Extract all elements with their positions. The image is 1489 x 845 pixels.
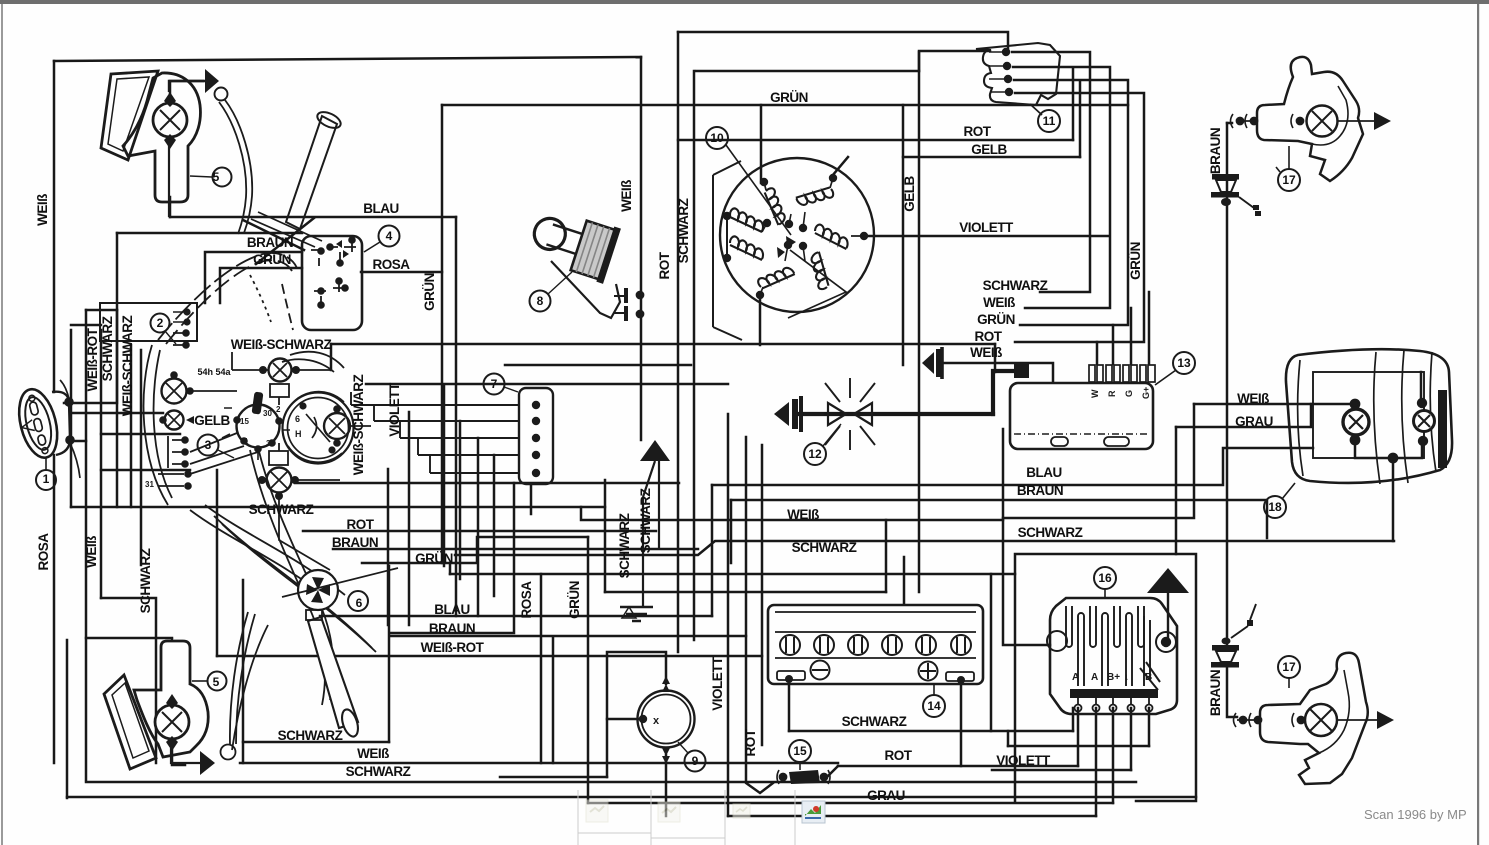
wire y777 stub — [500, 776, 607, 779]
wire top points box — [678, 32, 1008, 50]
horn connector bottom — [1211, 604, 1256, 668]
regulator 16 — [1047, 598, 1177, 714]
node label 17 front — [1276, 146, 1300, 191]
ignition coil 8 — [525, 203, 643, 321]
coil upper-right — [795, 176, 835, 216]
wire schwarz vertical x694 — [693, 71, 696, 640]
stator frame — [713, 161, 742, 340]
svg-text:B+: B+ — [1107, 672, 1120, 683]
switch 2 box — [100, 303, 197, 341]
wire WEISS bottom line — [240, 762, 838, 765]
wire lever box left — [242, 580, 245, 763]
node label 7 — [484, 374, 519, 395]
wire WEISSROT bucket y656 — [217, 655, 762, 658]
svg-text:SCHWARZ: SCHWARZ — [346, 764, 411, 779]
svg-text:VIOLETT: VIOLETT — [710, 656, 725, 711]
svg-text:ROT: ROT — [347, 517, 375, 532]
wire x1078 regulator A — [1077, 708, 1080, 766]
wire VIOLETT mid — [864, 235, 1109, 238]
svg-text:SCHWARZ: SCHWARZ — [1018, 525, 1083, 540]
svg-text:BRAUN: BRAUN — [247, 235, 293, 250]
wire points out 4 — [1015, 93, 1144, 342]
svg-text:2: 2 — [157, 316, 164, 330]
svg-text:SCHWARZ: SCHWARZ — [792, 540, 857, 555]
wire inner box a — [205, 252, 302, 303]
alternator 10 — [713, 158, 874, 340]
wire y365 — [505, 364, 691, 367]
svg-text:ROT: ROT — [657, 251, 672, 279]
wire thick fuse line — [799, 412, 993, 416]
svg-text:H: H — [295, 429, 302, 439]
svg-text:x: x — [653, 715, 660, 727]
broken image placeholder 1 — [586, 800, 608, 822]
svg-text:9: 9 — [692, 754, 699, 768]
svg-text:GRÜN: GRÜN — [977, 312, 1015, 327]
wire SCHWARZ bottom long — [86, 781, 1136, 784]
gelb lamp — [160, 411, 194, 430]
svg-text:B: B — [1145, 672, 1152, 683]
wire top frame — [54, 57, 641, 61]
svg-text:5: 5 — [213, 675, 220, 689]
wire left vertical x71 — [70, 330, 73, 507]
switch 3 pins — [168, 436, 188, 468]
wire x1176 vertical — [1175, 427, 1178, 554]
node label 9 — [678, 742, 706, 772]
weiss arrow connector — [922, 347, 942, 379]
wire left vertical x67 — [66, 640, 69, 798]
wire x886 — [885, 520, 888, 592]
faint table cell borders — [578, 790, 795, 845]
wire left frame lower — [53, 455, 56, 763]
wire bucket mesh horizontals — [71, 384, 728, 507]
node label 5 front — [190, 168, 232, 187]
wire BRAUN bucket y549 — [333, 548, 698, 551]
wire x712 vertical — [711, 485, 714, 616]
svg-text:BRAUN: BRAUN — [1017, 483, 1063, 498]
svg-text:14: 14 — [927, 699, 941, 713]
battery 14 — [768, 605, 983, 684]
svg-text:SCHWARZ: SCHWARZ — [138, 548, 153, 613]
svg-text:54h 54a: 54h 54a — [197, 367, 231, 377]
node label 14 — [923, 684, 945, 717]
wire bucket box left — [116, 233, 119, 507]
svg-text:WEIß: WEIß — [787, 507, 819, 522]
svg-text:4: 4 — [386, 229, 393, 243]
svg-text:ROT: ROT — [964, 124, 992, 139]
horn connector top — [1211, 174, 1261, 216]
broken image placeholder 3 — [733, 804, 750, 818]
svg-text:SCHWARZ: SCHWARZ — [638, 488, 653, 553]
wire rosa from switch4 — [361, 271, 442, 274]
wire bucket lines left entries — [71, 310, 117, 325]
svg-text:6: 6 — [356, 596, 363, 610]
wire x1096 regulator A2 — [1095, 708, 1098, 816]
wire weiss-schwarz y344 — [331, 343, 995, 346]
wire bucket mesh verticals — [388, 385, 494, 625]
svg-text:GELB: GELB — [971, 142, 1007, 157]
svg-text:GRÜN: GRÜN — [567, 581, 582, 619]
svg-text:GRAU: GRAU — [867, 788, 905, 803]
svg-text:BRAUN: BRAUN — [1208, 670, 1223, 716]
wire alternator bottom tap — [759, 295, 762, 345]
wire braun gruen diag a — [243, 220, 304, 250]
speedo lamp right — [324, 406, 350, 445]
coil upper-left — [755, 186, 795, 226]
svg-text:A: A — [1072, 672, 1079, 683]
svg-text:ROSA: ROSA — [36, 533, 51, 571]
wire braun vertical front blinker — [1226, 123, 1229, 645]
svg-text:SCHWARZ: SCHWARZ — [249, 502, 314, 517]
svg-text:WEIß: WEIß — [35, 194, 50, 226]
brake switch 15 — [777, 770, 830, 784]
coil left double — [730, 208, 763, 232]
clutch lever grip — [221, 610, 361, 760]
connector strip 7 — [351, 388, 553, 484]
svg-text:8: 8 — [537, 294, 544, 308]
wire rear lamp ground drop — [1392, 458, 1395, 541]
node label 3 — [198, 435, 235, 459]
svg-text:15: 15 — [240, 417, 249, 426]
svg-text:WEIß-ROT: WEIß-ROT — [85, 327, 100, 391]
headlight shell outline — [144, 345, 345, 600]
wire pilot lamp riser — [330, 344, 333, 370]
wire rear lamp inner drops — [1355, 372, 1422, 458]
throttle grip lever — [251, 109, 343, 247]
wire front blinker feed — [1227, 122, 1232, 125]
node label 17 rear — [1278, 656, 1300, 688]
svg-text:1: 1 — [43, 472, 50, 486]
rear turn signal 17 — [1234, 653, 1395, 784]
flasher relay 9 — [638, 676, 695, 764]
wire rosa staircase — [450, 484, 541, 763]
svg-text:BRAUN: BRAUN — [332, 535, 378, 550]
wire inner box b — [220, 268, 302, 303]
svg-text:16: 16 — [1098, 571, 1112, 585]
wire blinker5 bottom arrow stub — [172, 748, 185, 765]
wire VIOLETT y816 — [728, 815, 1096, 818]
node label 15 — [789, 740, 811, 770]
wire lower box left — [86, 637, 172, 640]
wire rot feed vertical — [1072, 68, 1075, 140]
broken image placeholder 4 — [802, 801, 825, 823]
svg-text:2: 2 — [276, 405, 281, 414]
svg-text:VIOLETT: VIOLETT — [959, 220, 1014, 235]
turn signal lamp 5 rear — [104, 638, 215, 775]
wire x1149 regulator B2 — [1148, 708, 1151, 746]
svg-text:ROSA: ROSA — [372, 257, 410, 272]
svg-text:SCHWARZ: SCHWARZ — [842, 714, 907, 729]
node label 18 — [1264, 483, 1295, 518]
svg-text:SCHWARZ: SCHWARZ — [278, 728, 343, 743]
wire horn feed top — [64, 310, 117, 403]
svg-text:GRÜN: GRÜN — [422, 273, 437, 311]
svg-text:12: 12 — [808, 447, 822, 461]
svg-text:R: R — [1107, 390, 1117, 397]
tail lamp indicator bottom — [259, 451, 298, 499]
svg-text:WEIß: WEIß — [1237, 391, 1269, 406]
svg-text:ROT: ROT — [885, 748, 913, 763]
svg-text:ROT: ROT — [743, 728, 758, 756]
svg-text:GELB: GELB — [194, 413, 230, 428]
wire x514 vertical — [390, 483, 514, 633]
wire horn2 to blinker — [1227, 667, 1237, 717]
wire bucket internal runs — [186, 352, 371, 570]
node label 4 — [364, 226, 400, 253]
wire BRAUN bucket y636 — [390, 635, 746, 638]
svg-text:10: 10 — [710, 131, 724, 145]
turn signal lamp 5 front — [101, 69, 252, 234]
wire SCHWARZ battery y731 — [789, 730, 1073, 733]
terminal 31 strip — [145, 471, 191, 489]
wire left frame upper (WEISS) — [53, 61, 56, 392]
wire weiss vertical x641 — [640, 57, 643, 440]
brake light switch 6 — [282, 568, 398, 610]
svg-text:VIOLETT: VIOLETT — [996, 753, 1051, 768]
svg-text:BLAU: BLAU — [363, 201, 399, 216]
wire x904 battery — [903, 557, 906, 604]
coil lower-left — [756, 258, 795, 298]
wire bottom frame — [67, 796, 1196, 799]
svg-text:WEIß-SCHWARZ: WEIß-SCHWARZ — [351, 375, 366, 476]
svg-text:G: G — [1124, 390, 1134, 397]
svg-text:WEIß-ROT: WEIß-ROT — [421, 640, 485, 655]
coil right — [814, 224, 848, 249]
wire diode feeds — [1097, 292, 1149, 364]
wire y574 — [450, 573, 1015, 576]
wire GRAU y803 — [588, 802, 1113, 805]
wire x1194 vertical — [1003, 404, 1194, 518]
svg-text:5: 5 — [213, 170, 220, 184]
wire x607 lower — [606, 719, 609, 777]
svg-text:WEIß: WEIß — [84, 536, 99, 568]
wire x731 vertical — [730, 500, 733, 563]
wire x1008 stub — [1007, 731, 1010, 746]
wire BLAU mid right — [712, 448, 1313, 485]
wire riser x995 — [994, 344, 997, 372]
wire WEISS rear lamp — [1194, 403, 1349, 406]
wire BRAUN mid right — [731, 500, 1267, 538]
node label 13 — [1155, 352, 1195, 385]
wire GRUEN staircase — [362, 537, 588, 563]
wire x217 vertical — [216, 470, 219, 656]
wire points weiss feed — [919, 51, 990, 71]
svg-text:SCHWARZ: SCHWARZ — [100, 316, 115, 381]
node label 16 — [1094, 567, 1116, 598]
fuse 12 — [774, 378, 875, 450]
svg-text:GRÜN: GRÜN — [1128, 242, 1143, 280]
tail lamp assembly 18 — [1286, 349, 1452, 484]
svg-text:Scan 1996 by MP: Scan 1996 by MP — [1364, 807, 1467, 822]
diode board 13 — [1010, 365, 1155, 449]
node label 5 rear — [192, 672, 227, 691]
svg-text:GRAU: GRAU — [1235, 414, 1273, 429]
regulator ground triangle — [1147, 568, 1189, 640]
cable curves to lower lever — [214, 447, 376, 750]
wire alternator top taps — [761, 105, 848, 183]
wire y592 — [605, 591, 886, 594]
node label 8 — [530, 272, 573, 312]
switch2 pins lower — [173, 330, 189, 347]
wire SCHWARZ long — [455, 541, 1394, 555]
coil lower-right — [800, 251, 839, 291]
speedometer — [283, 392, 354, 464]
wire BLAU bucket y616 — [320, 615, 712, 618]
wire flasher bottom stub — [665, 755, 668, 816]
svg-text:17: 17 — [1282, 173, 1296, 187]
ignition switch circle — [222, 392, 290, 460]
wire ROT bucket y531 — [303, 530, 656, 533]
pilot lamp top — [260, 359, 299, 398]
wire points out 3 — [1014, 80, 1128, 325]
svg-text:GELB: GELB — [902, 176, 917, 212]
svg-text:BLAU: BLAU — [1026, 465, 1062, 480]
node label 6 — [348, 591, 368, 611]
wire lever box bottom — [243, 741, 389, 744]
svg-text:18: 18 — [1268, 500, 1282, 514]
wire points out 1 — [1012, 52, 1090, 292]
svg-text:BRAUN: BRAUN — [429, 621, 475, 636]
broken image placeholder 2 — [658, 802, 680, 822]
contact breaker 11 — [976, 43, 1060, 115]
svg-text:VIOLETT: VIOLETT — [387, 382, 402, 437]
wire horn feed bottom — [70, 440, 86, 443]
wire WEISS mid y520 — [581, 507, 1003, 520]
wire gelb feed vertical — [1079, 82, 1082, 157]
svg-text:3: 3 — [205, 438, 212, 452]
B+ square terminal — [1014, 363, 1029, 378]
svg-text:A: A — [1091, 672, 1098, 683]
wire x746 vertical rot — [746, 437, 773, 793]
svg-text:ROT: ROT — [975, 329, 1003, 344]
wire ROT top — [678, 139, 1073, 142]
wire regulator box — [1015, 554, 1196, 801]
horn 1 — [13, 380, 80, 478]
wire lever box right — [388, 566, 391, 742]
wire GRUEN top long — [442, 104, 1128, 107]
wire step x101 to x156 — [101, 598, 156, 763]
node label 10 — [706, 127, 791, 235]
ignition light switch 4 — [302, 236, 362, 330]
wire BLAU top — [170, 216, 456, 219]
svg-text:↓: ↓ — [1124, 672, 1129, 683]
wire VIOLETT y770 — [992, 769, 1131, 772]
wire braun gruen diag b — [256, 218, 314, 264]
page chrome — [0, 0, 1489, 4]
node label 12 — [804, 424, 841, 465]
svg-text:GRÜN: GRÜN — [253, 252, 291, 267]
node label texts (numbers) — [43, 114, 1296, 768]
svg-text:SCHWARZ: SCHWARZ — [676, 198, 691, 263]
svg-text:G+: G+ — [1141, 387, 1151, 399]
wire GRAU rear lamp — [1176, 404, 1311, 427]
wire left vertical x101 — [100, 330, 103, 598]
wire x553 vertical — [552, 638, 555, 763]
wire ROT y766 — [838, 765, 1078, 768]
svg-text:WEIß-SCHWARZ: WEIß-SCHWARZ — [120, 316, 135, 417]
svg-text:WEIß-SCHWARZ: WEIß-SCHWARZ — [231, 337, 332, 352]
svg-text:W: W — [1090, 389, 1100, 398]
svg-text:BLAU: BLAU — [434, 602, 470, 617]
svg-text:WEIß: WEIß — [619, 180, 634, 212]
svg-text:ROSA: ROSA — [519, 581, 534, 619]
wire alternator box top — [696, 70, 919, 73]
wire points out 2 — [1013, 67, 1110, 308]
svg-text:6: 6 — [295, 414, 300, 424]
wire gruen vertical x588 — [587, 537, 590, 803]
svg-text:3: 3 — [266, 439, 271, 448]
wire gelb vertical x903 — [902, 105, 905, 365]
wire weiss-rot group verticals — [131, 345, 141, 565]
node label 1 — [36, 457, 56, 490]
charge lamp left — [162, 372, 193, 403]
wire battery plus drop — [960, 684, 963, 766]
wire WEISS arrow line y363 — [942, 363, 1053, 382]
svg-text:1: 1 — [244, 437, 249, 446]
svg-text:SCHWARZ: SCHWARZ — [983, 278, 1048, 293]
svg-text:11: 11 — [1043, 114, 1056, 128]
wire gruen vertical x442 — [441, 105, 444, 563]
wire colour labels horizontal — [194, 90, 1273, 803]
front turn signal 17 — [1231, 57, 1392, 181]
wire switch15 to rot — [827, 766, 838, 777]
wire x1131 regulator plus — [1130, 708, 1133, 770]
wire thick B+ to square — [993, 371, 1016, 414]
svg-text:WEIß: WEIß — [970, 345, 1002, 360]
wire x1073 vertical — [1072, 708, 1075, 731]
wire x1003 vertical — [1003, 429, 1050, 645]
svg-text:17: 17 — [1282, 660, 1296, 674]
wire GELB top — [903, 156, 1080, 159]
wire blinker5 top stem — [169, 197, 172, 217]
wire x1113 regulator B — [1112, 708, 1115, 803]
wire blau vertical x456 — [455, 217, 458, 616]
svg-text:WEIß: WEIß — [357, 746, 389, 761]
svg-text:13: 13 — [1177, 356, 1191, 370]
svg-text:GRÜN: GRÜN — [770, 90, 808, 105]
wire violett vertical x728 — [727, 414, 730, 816]
wire schwarz vertical x678 — [677, 32, 680, 652]
svg-text:BRAUN: BRAUN — [1208, 128, 1223, 174]
wire bucket box top — [117, 232, 302, 235]
handlebar cable curves upper — [158, 253, 297, 344]
wire x605 vertical — [604, 480, 607, 592]
node label 2 — [151, 314, 177, 345]
wire colour labels vertical — [35, 128, 1223, 757]
svg-text:SCHWARZ: SCHWARZ — [617, 513, 632, 578]
wire blinker5 top arrow line — [170, 81, 203, 95]
wire vertical x919 — [918, 52, 921, 592]
wire x762 vertical — [761, 445, 764, 745]
svg-text:WEIß: WEIß — [983, 295, 1015, 310]
svg-text:15: 15 — [793, 744, 807, 758]
svg-text:7: 7 — [491, 377, 498, 391]
wire flasher top loop — [607, 652, 666, 719]
wire left vertical x86 — [85, 310, 88, 780]
svg-text:31: 31 — [145, 480, 154, 489]
wire y746 — [1008, 745, 1149, 748]
ground arrow mid — [620, 440, 670, 621]
svg-text:GRÜN: GRÜN — [415, 551, 453, 566]
svg-text:30: 30 — [263, 409, 272, 418]
wire x991 — [990, 574, 993, 731]
wire battery minus drop — [788, 684, 791, 731]
node label 11 — [1038, 110, 1060, 132]
